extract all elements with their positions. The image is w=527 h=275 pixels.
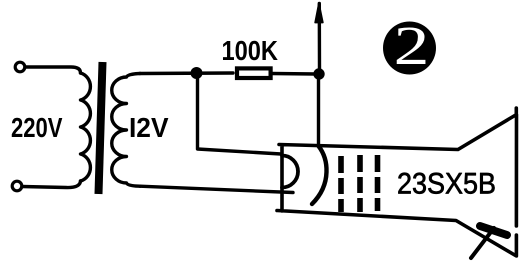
grid curve inside tube: [312, 146, 327, 204]
svg-text:23SX5B: 23SX5B: [397, 168, 496, 201]
node B junction dot: [313, 68, 324, 79]
wire primary top: [25, 67, 81, 73]
badge circle 2: [383, 22, 436, 75]
terminal bottom-left: [12, 181, 22, 191]
terminal top-left: [15, 62, 25, 72]
anode cap bar: [480, 226, 507, 235]
wire secondary top to node A: [140, 71, 233, 75]
wire primary bottom: [22, 181, 81, 188]
grid dashes column 2: [357, 155, 363, 212]
resistor R1 body: [237, 68, 271, 78]
wire resistor to node B: [272, 72, 316, 76]
transformer secondary winding: [112, 74, 140, 187]
svg-text:2: 2: [394, 15, 430, 76]
node A junction dot: [191, 67, 203, 79]
wire secondary bottom to heater: [140, 186, 293, 192]
wire node B down into tube (grid lead): [317, 78, 320, 146]
transformer core: [99, 62, 103, 194]
arrowhead up: [315, 4, 323, 23]
grid dashes column 3: [375, 155, 381, 211]
anode lead: [471, 228, 494, 258]
cathode arc (D shape): [282, 156, 298, 188]
svg-text:220V: 220V: [11, 112, 63, 143]
wire node A down to heater: [198, 76, 282, 154]
svg-text:100K: 100K: [222, 35, 279, 66]
grid dashes column 1: [338, 156, 344, 212]
CRT envelope 23SX5B: [277, 108, 517, 256]
transformer primary winding: [81, 73, 91, 181]
wire node B up with arrow: [318, 4, 322, 71]
svg-text:I2V: I2V: [129, 112, 169, 143]
